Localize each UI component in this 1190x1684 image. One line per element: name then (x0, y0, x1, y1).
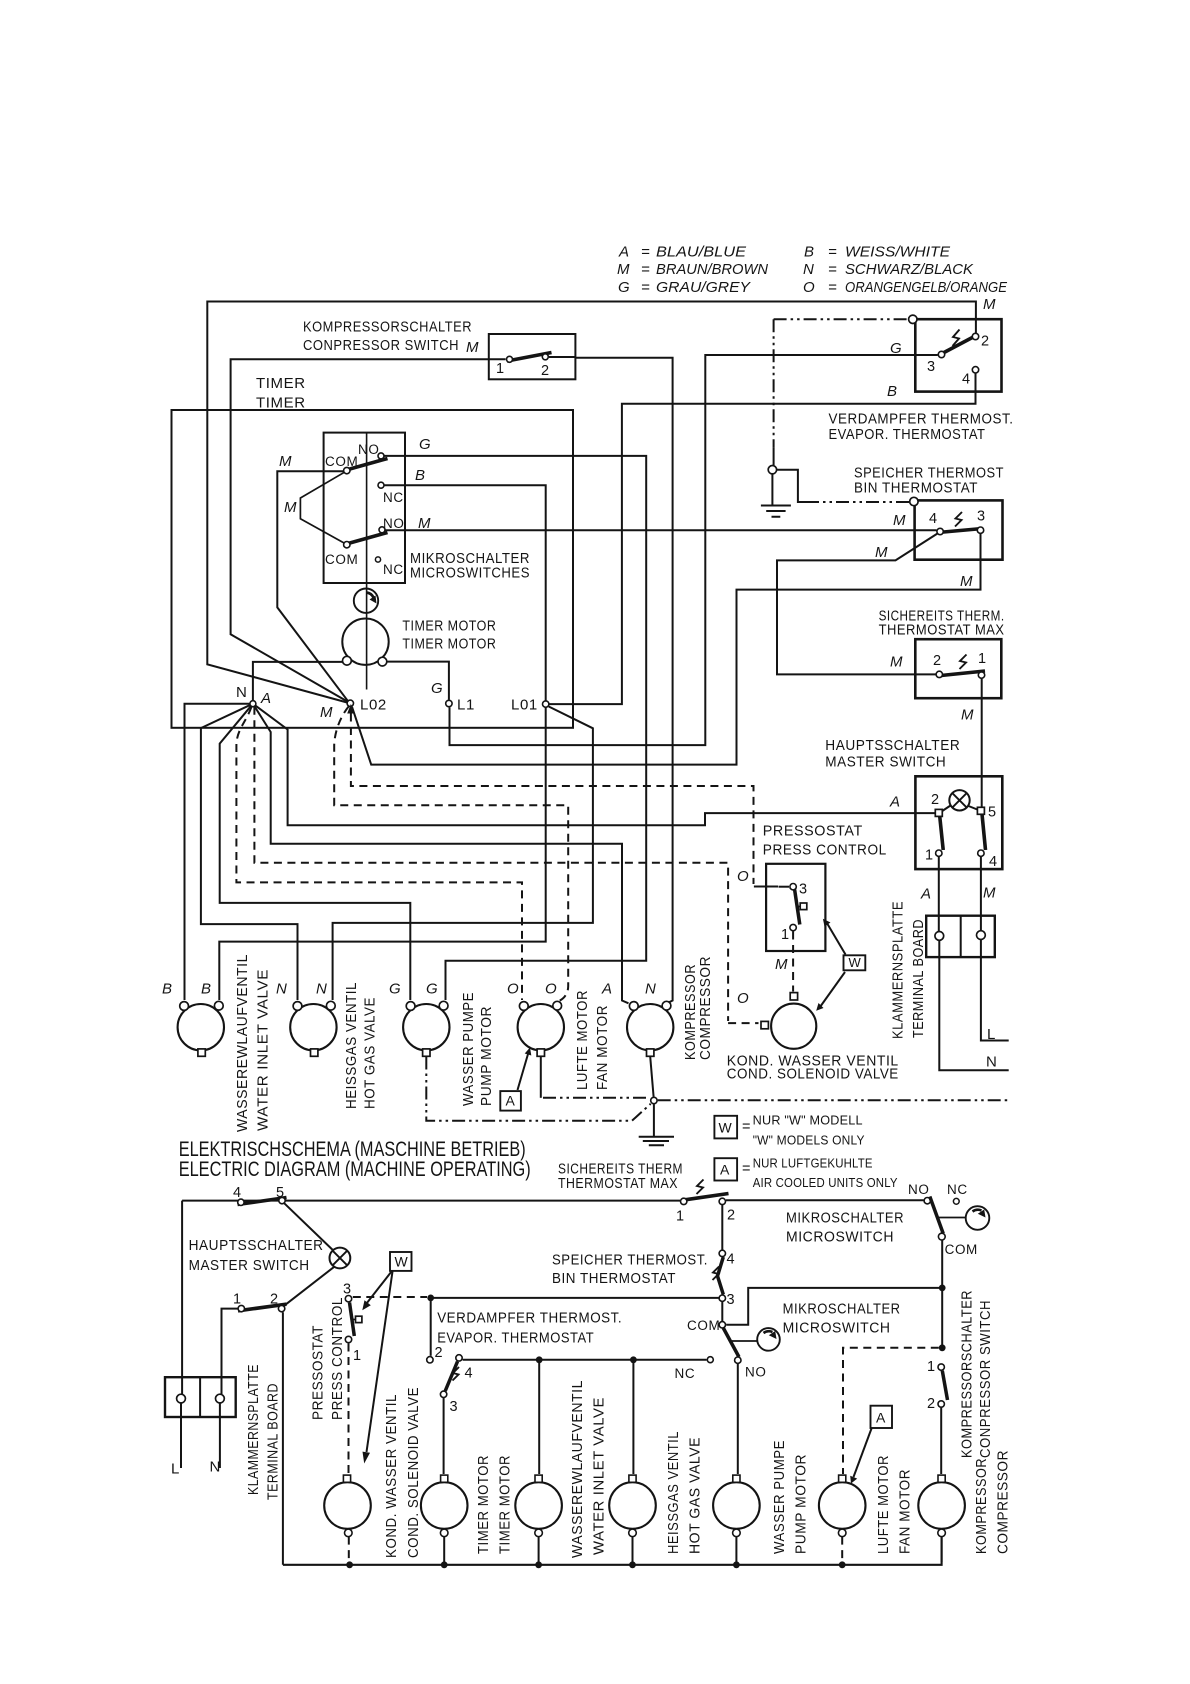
wire contact 1 to N terminal (220, 1309, 238, 1468)
svg-text:1: 1 (676, 1209, 684, 1225)
svg-text:COM: COM (945, 1242, 978, 1257)
svg-text:W: W (719, 1120, 733, 1136)
svg-text:3: 3 (927, 359, 935, 375)
svg-text:ORANGENGELB/ORANGE: ORANGENGELB/ORANGE (845, 279, 1008, 296)
svg-text:HAUPTSSCHALTER: HAUPTSSCHALTER (825, 737, 960, 754)
svg-text:2: 2 (270, 1291, 278, 1307)
svg-text:CONPRESSOR SWITCH: CONPRESSOR SWITCH (303, 337, 459, 354)
contact master 4 lower (238, 1199, 244, 1205)
blade safety lower 1-2 (685, 1194, 729, 1200)
blade bin 4-3 (938, 529, 983, 533)
contact bin 4 lower (719, 1250, 725, 1256)
wire G evap contact 3 left and down to L1 bus (450, 355, 938, 745)
chassis dash-dot divider to right (658, 1099, 1009, 1101)
lamp lower (330, 1248, 351, 1269)
press mid terminal lower (352, 1319, 356, 1321)
svg-text:1: 1 (925, 848, 933, 864)
node N/A (250, 701, 256, 707)
svg-text:B: B (201, 981, 211, 998)
svg-text:W: W (849, 955, 862, 970)
svg-text:2: 2 (933, 653, 941, 669)
svg-text:ELECTRIC DIAGRAM (MACHINE OPER: ELECTRIC DIAGRAM (MACHINE OPERATING) (179, 1158, 531, 1181)
svg-text:N: N (803, 261, 814, 278)
svg-text:GRAU/GREY: GRAU/GREY (656, 279, 751, 296)
svg-text:L01: L01 (511, 697, 538, 714)
svg-text:1: 1 (781, 927, 789, 943)
wire B node left to inlet valve left terminal (185, 704, 250, 1000)
wire lamp to contact 2 (284, 1267, 334, 1306)
svg-text:1: 1 (978, 651, 986, 667)
svg-text:WASSER PUMPE: WASSER PUMPE (771, 1440, 788, 1554)
svg-text:G: G (618, 279, 630, 296)
svg-text:N: N (316, 981, 327, 998)
svg-text:3: 3 (977, 509, 985, 525)
svg-text:SPEICHER THERMOST.: SPEICHER THERMOST. (552, 1252, 708, 1269)
wire down to hotgas valve (632, 1360, 634, 1474)
svg-text:WATER INLET VALVE: WATER INLET VALVE (591, 1397, 608, 1555)
svg-text:M: M (279, 453, 292, 470)
fan motor M3 (518, 1004, 564, 1050)
svg-text:B: B (887, 383, 897, 400)
svg-text:=: = (641, 279, 650, 296)
contact evap 4 lower (456, 1355, 462, 1361)
svg-text:M: M (960, 573, 973, 590)
fan motor lower (819, 1482, 866, 1529)
contact bin 3 (977, 527, 983, 533)
press control box S3 (766, 864, 825, 951)
svg-text:PRESSOSTAT: PRESSOSTAT (763, 823, 863, 840)
svg-text:AIR COOLED UNITS ONLY: AIR COOLED UNITS ONLY (753, 1176, 898, 1190)
microswitch 1 NC open contact (953, 1198, 959, 1204)
blade compressor switch 1-2 (507, 353, 552, 362)
microswitch 1 actuator circle (966, 1206, 990, 1230)
wire M COM link V-shape (300, 472, 344, 543)
svg-text:=: = (828, 279, 837, 296)
thermal wavy bin (955, 512, 962, 527)
svg-text:A: A (260, 690, 271, 707)
svg-text:WASSEREWLAUFVENTIL: WASSEREWLAUFVENTIL (569, 1380, 586, 1558)
wire N from compressor switch contact 2 to compressor motor (549, 357, 673, 1003)
timer motor terminal right (378, 657, 387, 666)
wire down to inlet valve (538, 1360, 540, 1474)
svg-text:NC: NC (383, 490, 404, 505)
svg-text:L02: L02 (360, 697, 387, 714)
junction dot inlet (536, 1356, 543, 1363)
contact master 2 lower (278, 1305, 284, 1311)
svg-text:1: 1 (233, 1291, 241, 1307)
microswitch 1 blade NO-COM (930, 1197, 943, 1234)
svg-text:G: G (389, 981, 401, 998)
node L1 (446, 700, 452, 706)
svg-text:BLAU/BLUE: BLAU/BLUE (656, 244, 747, 261)
svg-text:KLAMMERNSPLATTE: KLAMMERNSPLATTE (890, 901, 907, 1039)
wire N node fan to hotgas valve left terminal (201, 704, 298, 1000)
svg-text:TIMER: TIMER (256, 395, 306, 412)
svg-text:MASTER SWITCH: MASTER SWITCH (825, 754, 946, 771)
svg-text:M: M (890, 654, 903, 671)
press mid terminal (797, 906, 801, 908)
svg-text:EVAPOR. THERMOSTAT: EVAPOR. THERMOSTAT (437, 1330, 594, 1347)
svg-text:KOMPRESSOR: KOMPRESSOR (973, 1458, 990, 1554)
svg-text:BRAUN/BROWN: BRAUN/BROWN (656, 261, 768, 278)
svg-text:WASSEREWLAUFVENTIL: WASSEREWLAUFVENTIL (234, 954, 251, 1132)
svg-text:HEISSGAS VENTIL: HEISSGAS VENTIL (665, 1431, 682, 1554)
svg-text:2: 2 (727, 1208, 735, 1224)
svg-text:O: O (803, 279, 815, 296)
svg-text:COND. SOLENOID VALVE: COND. SOLENOID VALVE (405, 1387, 422, 1558)
wire contact 2 down to bottom bus (282, 1312, 284, 1565)
W box upper (844, 955, 866, 970)
svg-text:2: 2 (435, 1345, 443, 1361)
blade evap 4-3 lower (445, 1362, 457, 1392)
svg-text:N: N (236, 684, 247, 701)
svg-text:M: M (466, 339, 479, 356)
contact master 1 lower (238, 1305, 244, 1311)
ground symbol lower (639, 1104, 674, 1145)
wire B evap contact 4 down-left to L01 (549, 374, 975, 705)
svg-text:NO: NO (908, 1182, 929, 1197)
microswitch 2 actuator circle (757, 1328, 780, 1351)
arrow W to press box (826, 922, 846, 955)
svg-text:A: A (920, 886, 931, 903)
svg-text:A: A (601, 981, 612, 998)
contact safety 2 (936, 671, 942, 677)
wire M to compressor switch contact 1, down to L02 (231, 359, 506, 701)
contact microswitch COM1 (344, 467, 350, 473)
lamp leads (942, 806, 979, 812)
wire evap 4 right to NC with junctions (463, 1359, 707, 1361)
svg-text:B: B (162, 981, 172, 998)
svg-text:TIMER MOTOR: TIMER MOTOR (497, 1455, 514, 1554)
svg-text:M: M (617, 261, 630, 278)
solenoid valve V3 (771, 1004, 816, 1049)
svg-text:MIKROSCHALTER: MIKROSCHALTER (783, 1301, 901, 1318)
wire O dashed curved from node to fan motor left terminal (236, 707, 522, 1000)
A box lower (871, 1406, 893, 1428)
svg-text:HAUPTSSCHALTER: HAUPTSSCHALTER (189, 1237, 324, 1254)
contact bin 3 lower (719, 1295, 725, 1301)
junction dot hotgas (630, 1356, 637, 1363)
svg-text:G: G (431, 680, 443, 697)
svg-text:G: G (890, 340, 902, 357)
terminal circle M (977, 931, 986, 940)
arrow A to fan motor (518, 1053, 529, 1090)
ground symbol upper (761, 474, 791, 517)
compressor lower (918, 1482, 965, 1529)
blade safety 2-1 (941, 671, 985, 676)
svg-text:PRESS CONTROL: PRESS CONTROL (329, 1297, 346, 1420)
terminal circles lower (177, 1394, 186, 1403)
pump motor lower (713, 1482, 760, 1529)
node L01 (543, 701, 549, 707)
chassis compressor bottom to ground node (650, 1057, 653, 1097)
wire junction down to evap 2 (430, 1298, 432, 1356)
contact compressor switch 2 (542, 354, 548, 360)
svg-text:NC: NC (675, 1366, 696, 1381)
hot gas valve V2 (290, 1004, 336, 1050)
svg-text:1: 1 (496, 361, 504, 377)
svg-text:TIMER MOTOR: TIMER MOTOR (475, 1455, 492, 1554)
svg-text:EVAPOR. THERMOSTAT: EVAPOR. THERMOSTAT (829, 426, 986, 443)
contact press 3 (790, 884, 796, 890)
svg-text:N: N (645, 981, 656, 998)
wire node up to timer motor left terminal (253, 662, 343, 701)
svg-text:WASSER PUMPE: WASSER PUMPE (460, 992, 477, 1106)
svg-text:NO: NO (383, 516, 404, 531)
svg-text:MICROSWITCH: MICROSWITCH (783, 1320, 891, 1337)
svg-text:NO: NO (745, 1364, 766, 1379)
svg-text:PRESS CONTROL: PRESS CONTROL (763, 842, 887, 859)
svg-text:M: M (418, 515, 431, 532)
svg-text:3: 3 (343, 1282, 351, 1298)
svg-text:SCHWARZ/BLACK: SCHWARZ/BLACK (845, 261, 974, 278)
wire safety 2 to microswitch NO (726, 1199, 924, 1201)
svg-text:2: 2 (541, 363, 549, 379)
microswitch 1 actuator link (939, 1217, 966, 1219)
wire M COM1 left and down to L02 (277, 471, 348, 702)
dashed wire press 3 to junction (353, 1296, 427, 1298)
evaporator thermostat box B2 (915, 319, 1001, 391)
svg-text:4: 4 (465, 1366, 473, 1382)
contact microswitch NO2 (379, 527, 385, 533)
svg-text:TIMER MOTOR: TIMER MOTOR (402, 636, 496, 653)
master switch box S2 (915, 776, 1002, 869)
svg-text:MASTER SWITCH: MASTER SWITCH (189, 1257, 310, 1274)
svg-text:O: O (545, 981, 557, 998)
svg-text:BIN THERMOSTAT: BIN THERMOSTAT (854, 480, 978, 497)
svg-text:A: A (720, 1162, 730, 1178)
thermal wavy safety lower (697, 1180, 704, 1195)
svg-text:L1: L1 (457, 697, 475, 714)
svg-text:L: L (171, 1461, 180, 1478)
wire A master contact 1 down to terminal board (939, 857, 1009, 1070)
svg-text:VERDAMPFER THERMOST.: VERDAMPFER THERMOST. (437, 1310, 622, 1327)
blade master 1-2 lower (238, 1304, 287, 1311)
svg-text:HOT GAS VALVE: HOT GAS VALVE (687, 1437, 704, 1554)
hotgas valve lower (609, 1482, 656, 1529)
svg-text:L: L (987, 1026, 996, 1043)
svg-text:WEISS/WHITE: WEISS/WHITE (845, 244, 951, 261)
pump motor M2 (403, 1004, 449, 1050)
svg-text:W: W (395, 1254, 409, 1270)
A box upper (500, 1091, 521, 1111)
svg-text:4: 4 (929, 511, 937, 527)
svg-text:G: G (426, 981, 438, 998)
chassis fan bottom (540, 1057, 542, 1098)
svg-text:2: 2 (931, 792, 939, 808)
svg-text:HEISSGAS VENTIL: HEISSGAS VENTIL (343, 982, 360, 1109)
contact safety 2 lower (719, 1198, 725, 1204)
contact master 5 (977, 807, 984, 814)
bin thermostat box B3 (915, 500, 1003, 559)
wire COM1 top microswitch down to junction and across to COM (726, 1240, 942, 1348)
contact bin 4 (937, 528, 943, 534)
svg-text:COM: COM (325, 552, 358, 567)
compressor switch contacts lower (938, 1364, 944, 1370)
svg-text:N: N (986, 1054, 997, 1071)
svg-text:TERMINAL BOARD: TERMINAL BOARD (910, 919, 927, 1038)
lamp master switch (949, 790, 969, 810)
svg-text:4: 4 (727, 1252, 735, 1268)
wire node fan to pump motor left terminal (220, 704, 411, 1000)
svg-text:LUFTE MOTOR: LUFTE MOTOR (875, 1455, 892, 1554)
terminal board box upper (926, 916, 995, 957)
safety thermostat box B4 (915, 639, 1001, 698)
wire compressor contact 2 down to motor (940, 1408, 942, 1474)
svg-text:O: O (737, 868, 749, 885)
wire G from microswitch NO1 to pump motor right terminal (381, 456, 646, 1000)
wire N L01 diagonal to hotgas valve right terminal (333, 707, 593, 1001)
svg-text:COMPRESSOR: COMPRESSOR (697, 956, 714, 1060)
svg-text:PUMP MOTOR: PUMP MOTOR (478, 1006, 495, 1106)
press contact 3 stub (779, 886, 790, 888)
svg-text:1: 1 (927, 1359, 935, 1375)
contact safety 1 (978, 672, 984, 678)
arrow to L02 (347, 704, 354, 714)
svg-text:M: M (893, 512, 906, 529)
contact press 1 (790, 924, 796, 930)
svg-text:N: N (276, 981, 287, 998)
contact compressor switch 1 (507, 356, 513, 362)
wire M from microswitch NO2 to bin thermostat contact 4 (382, 529, 937, 531)
W box lower (390, 1252, 412, 1271)
node L02 (347, 700, 353, 706)
svg-text:HOT GAS VALVE: HOT GAS VALVE (362, 997, 379, 1109)
svg-text:B: B (415, 467, 425, 484)
chassis elbow to bin box (777, 470, 806, 502)
svg-text:COM: COM (325, 454, 358, 469)
microswitch 2 NO contact (735, 1357, 741, 1363)
svg-text:M: M (775, 956, 788, 973)
blade compressor switch lower (942, 1371, 947, 1400)
microswitch 2 NC open contact (707, 1357, 713, 1363)
svg-text:NC: NC (947, 1182, 968, 1197)
svg-text:M: M (983, 296, 996, 313)
svg-text:M: M (961, 707, 974, 724)
thermal wavy bin lower (713, 1267, 720, 1281)
bottom bus (283, 1537, 942, 1565)
timer motor lower (421, 1482, 468, 1529)
svg-text:KOMPRESSORSCHALTER: KOMPRESSORSCHALTER (303, 319, 472, 336)
svg-text:A: A (889, 794, 900, 811)
svg-text:THERMOSTAT MAX: THERMOSTAT MAX (879, 622, 1005, 639)
wire junction to bin 3 (431, 1297, 719, 1299)
circle on bin box corner (910, 497, 918, 505)
contact master 5 lower (279, 1197, 285, 1203)
W legend box (714, 1116, 737, 1139)
contact evap 2 (972, 333, 978, 339)
compressor switch box S1 (489, 334, 576, 379)
svg-text:CONPRESSOR SWITCH: CONPRESSOR SWITCH (977, 1300, 994, 1458)
contact evap 3 (938, 351, 944, 357)
arrow W to press contact (367, 1272, 392, 1304)
svg-text:KOND. WASSER VENTIL: KOND. WASSER VENTIL (383, 1394, 400, 1558)
svg-text:KOMPRESSORSCHALTER: KOMPRESSORSCHALTER (959, 1290, 976, 1458)
microswitch 2 blade COM-NO (723, 1328, 739, 1357)
timer indicator arrow (367, 593, 374, 598)
dashed wire junction to fan motor (843, 1348, 939, 1474)
svg-text:NUR "W" MODELL: NUR "W" MODELL (753, 1114, 863, 1128)
timer motor circle M1 (342, 619, 388, 665)
svg-text:=: = (742, 1161, 750, 1177)
blade press lower (350, 1303, 355, 1337)
svg-text:PUMP MOTOR: PUMP MOTOR (793, 1454, 810, 1554)
timer box (172, 410, 574, 728)
svg-text:TERMINAL BOARD: TERMINAL BOARD (265, 1383, 282, 1500)
wire bin 3 to COM (721, 1302, 723, 1321)
svg-text:O: O (507, 981, 519, 998)
wire A node fan to A-bus to master switch contact 2 (253, 704, 935, 826)
blade press 3-1 (795, 890, 800, 925)
solenoid valve lower (324, 1482, 371, 1529)
contact evap 2 lower (427, 1357, 433, 1363)
svg-text:=: = (742, 1119, 750, 1135)
wire M safety contact 1 down to master switch contact 5 (981, 679, 983, 808)
svg-text:O: O (737, 990, 749, 1007)
wire B from microswitch NC1 through L01 down to inlet valve right terminal (219, 485, 545, 1000)
microswitch 2 actuator link (732, 1340, 757, 1342)
ground chassis wire dash-dot to evap box (774, 318, 909, 320)
arrow W to solenoid (820, 972, 845, 1007)
svg-text:LUFTE MOTOR: LUFTE MOTOR (574, 990, 591, 1090)
svg-text:2: 2 (927, 1396, 935, 1412)
wire M bin contact 3 down-left to L02 M bus (352, 534, 981, 765)
contact microswitch NC1 (378, 482, 384, 488)
microswitch box U1 (324, 433, 405, 583)
arrow W to solenoid lower (367, 1272, 393, 1453)
microswitch inner axis line (366, 433, 368, 690)
blade master 4-5 (238, 1198, 287, 1205)
press lower contacts (345, 1296, 351, 1302)
wire M bin contact 4 to safety thermostat contact 2 (777, 534, 938, 675)
svg-text:=: = (828, 261, 837, 278)
wire O dashed from L02 to press control contact 3 (351, 714, 754, 885)
blade bin 4-3 lower (718, 1257, 724, 1295)
wire O dashed curved from L02 to fan motor right terminal (334, 707, 568, 1002)
svg-text:WATER INLET VALVE: WATER INLET VALVE (255, 969, 272, 1131)
svg-text:M: M (983, 884, 996, 901)
contact master 2 (935, 809, 942, 816)
wire NO microswitch2 down to pump motor (737, 1364, 739, 1474)
arrow A to fan motor lower (854, 1429, 872, 1478)
wire top bus L to safety contact 1 (182, 1200, 680, 1202)
svg-text:4: 4 (989, 854, 997, 870)
wire contact 5 to lamp (284, 1203, 333, 1250)
A legend box (714, 1158, 737, 1180)
timer indicator circle (354, 589, 378, 613)
svg-text:=: = (641, 261, 650, 278)
wire evap 3 down to timer motor (443, 1398, 445, 1474)
svg-text:COM: COM (687, 1318, 720, 1333)
contact microswitch NO1 (378, 453, 384, 459)
svg-text:COND. SOLENOID VALVE: COND. SOLENOID VALVE (727, 1066, 899, 1083)
svg-text:M: M (320, 704, 333, 721)
svg-text:3: 3 (450, 1399, 458, 1415)
terminal board box lower (165, 1377, 236, 1417)
microswitch 1 COM contact (938, 1233, 945, 1240)
timer motor terminal left (343, 656, 352, 665)
svg-text:N: N (210, 1458, 221, 1475)
ground node circle (651, 1097, 657, 1103)
contact evap 4 (972, 367, 978, 373)
contact master 4 (978, 850, 984, 856)
svg-text:FAN MOTOR: FAN MOTOR (594, 1005, 611, 1090)
contact evap 3 lower (440, 1391, 446, 1397)
junction dot (939, 1344, 946, 1351)
svg-text:"W" MODELS ONLY: "W" MODELS ONLY (753, 1134, 865, 1148)
svg-text:THERMOSTAT MAX: THERMOSTAT MAX (558, 1175, 678, 1192)
svg-text:=: = (828, 244, 837, 261)
